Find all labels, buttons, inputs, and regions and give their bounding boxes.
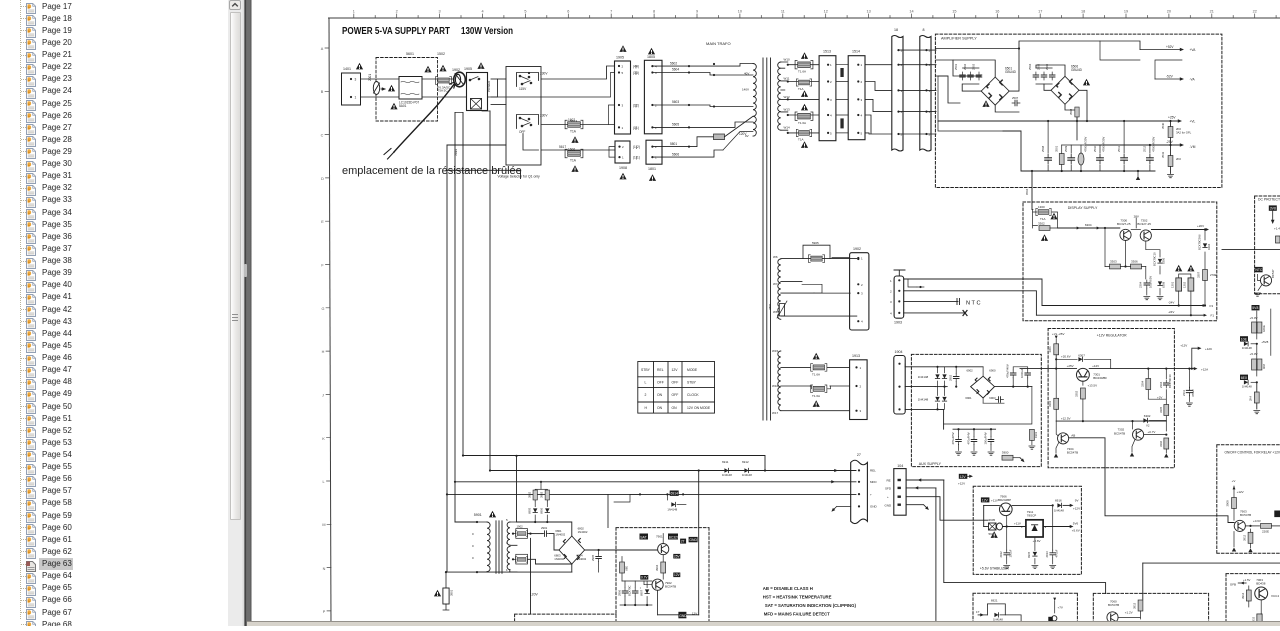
svg-text:12V: 12V [672,368,679,372]
wire N [361,96,467,98]
svg-text:2: 2 [929,63,931,67]
svg-text:3306: 3306 [1131,260,1138,264]
lower mid winding (W5-W8) [778,259,781,319]
svg-text:3: 3 [655,71,657,75]
svg-text:1805: 1805 [647,55,655,59]
svg-text:1: 1 [830,63,832,67]
svg-text:W7: W7 [773,282,778,286]
fuse 1300 loop [1031,203,1033,210]
svg-text:A: A [321,47,324,51]
svg-text:18: 18 [1081,10,1085,14]
svg-text:6304: 6304 [1207,243,1211,250]
svg-text:6907: 6907 [640,589,644,596]
svg-text:1901: 1901 [1034,431,1038,438]
fuse 1502 [435,77,451,85]
svg-text:4: 4 [861,320,863,324]
svg-text:MFD: MFD [870,480,877,484]
fuse 1602 [565,120,583,128]
svg-text:M: M [322,523,325,527]
transistor 7903 BC547B [1234,520,1245,531]
svg-text:12V: 12V [674,573,681,577]
svg-text:2K4: 2K4 [1249,396,1253,401]
svg-text:78SCP: 78SCP [1027,514,1037,518]
svg-text:470uF/4V: 470uF/4V [967,432,971,444]
svg-text:+12V REGULATOR: +12V REGULATOR [1097,333,1127,337]
wire L [361,78,467,80]
svg-text:11: 11 [781,10,785,14]
wire pin4 [904,312,965,314]
svg-text:2902: 2902 [949,374,953,381]
svg-text:Voltage Selector for Q1 only: Voltage Selector for Q1 only [498,175,541,179]
burned resistor blob (arrow target) [454,72,466,87]
primary coil [476,521,478,523]
taps [781,259,857,317]
below IC zener [1034,537,1036,551]
svg-text:+12V: +12V [1092,364,1099,368]
svg-text:3301: 3301 [1048,346,1052,353]
3905 component [984,526,989,528]
wire x447 [446,145,448,572]
svg-text:L: L [645,381,647,385]
svg-text:3307: 3307 [1197,271,1201,278]
arrow + triangle [381,88,385,90]
svg-text:1905: 1905 [464,67,472,71]
svg-text:+12V: +12V [1180,344,1187,348]
svg-text:T1.6A: T1.6A [812,372,820,376]
svg-text:5603: 5603 [672,100,679,104]
svg-text:W16: W16 [772,384,779,388]
svg-text:2: 2 [830,80,832,84]
svg-text:2501: 2501 [954,63,958,70]
svg-text:+2V: +2V [1157,396,1162,400]
wires from switch to selector and connector [491,78,506,80]
svg-text:3V8: 3V8 [1270,207,1276,211]
svg-text:BC547: BC547 [1271,269,1275,278]
svg-text:3304: 3304 [1141,380,1145,387]
svg-text:13: 13 [866,10,870,14]
svg-text:BD242BP: BD242BP [998,498,1011,502]
svg-text:+: + [887,495,889,499]
wire pin1 to display rail [904,279,1042,306]
power switch box 1903 [467,73,488,111]
svg-text:4: 4 [901,110,903,114]
svg-text:0V: 0V [745,134,749,138]
svg-text:1: 1 [929,49,931,53]
svg-text:NTC: NTC [1255,268,1263,272]
svg-text:3305: 3305 [1159,406,1163,413]
svg-text:2: 2 [655,145,657,149]
svg-text:6912: 6912 [742,460,749,464]
svg-text:3A2 for GFL: 3A2 for GFL [1176,131,1192,135]
svg-text:12V: 12V [960,475,967,479]
svg-text:BD230/BF: BD230/BF [1093,376,1107,380]
connector 1903 [894,276,904,318]
svg-text:2001: 2001 [368,74,372,81]
svg-text:1N4002: 1N4002 [578,530,588,534]
left resistor [620,562,625,573]
svg-text:3541: 3541 [1161,151,1165,158]
svg-text:9: 9 [696,10,698,14]
rail to transistors [1058,227,1120,229]
connector 1401 [342,73,361,105]
left resistor [1055,369,1057,398]
AMPLIFIER SUPPLY dashed box [935,34,1222,187]
cap 2507 [1012,100,1020,106]
bridge 6501 [981,77,1009,105]
svg-text:AMPLIFIER SUPPLY: AMPLIFIER SUPPLY [941,37,977,41]
resistor horizontal + gnd [1002,455,1013,460]
svg-text:1903: 1903 [894,321,902,325]
svg-text:+5.0V: +5.0V [1250,316,1258,320]
right cap [1052,505,1054,550]
svg-text:230V: 230V [540,72,548,76]
svg-text:3302: 3302 [1075,390,1079,397]
wavy connector 8 [920,36,931,152]
+5.6V STABILIZER box [973,486,1081,574]
svg-text:P: P [323,610,326,614]
svg-text:5601: 5601 [406,52,414,56]
svg-text:6905: 6905 [528,507,532,514]
svg-text:1?: 1? [976,610,980,614]
svg-text:2502: 2502 [963,63,967,70]
resistors above bridge [535,489,547,501]
svg-text:F3: F3 [1210,304,1214,308]
svg-text:1: 1 [353,10,355,14]
bottom caps row [1045,154,1052,164]
svg-text:4: 4 [655,65,657,69]
svg-text:2504: 2504 [1028,63,1032,70]
svg-text:6504: 6504 [1025,188,1029,195]
svg-text:5: 5 [861,131,863,135]
svg-text:3: 3 [901,89,903,93]
svg-text:C: C [321,134,324,138]
svg-text:3: 3 [861,98,863,102]
svg-text:AUX SUPPLY: AUX SUPPLY [919,462,942,466]
transistor 7906 BD242BP [999,503,1012,516]
wavy connector 18 [892,36,903,152]
svg-text:6307: 6307 [1078,353,1085,357]
svg-text:3913: 3913 [1133,602,1137,609]
wire pin3 NTC [904,300,958,302]
svg-text:6921: 6921 [991,599,998,603]
connector box 1513 [819,56,836,141]
bottom rails [1042,305,1204,307]
svg-text:1N4148: 1N4148 [667,507,677,511]
svg-text:2505: 2505 [1037,63,1041,70]
svg-text:+0.7V: +0.7V [1148,430,1156,434]
svg-text:3501: 3501 [1055,145,1059,152]
NTC resistor on winding [779,304,784,316]
svg-text:1902: 1902 [517,525,524,529]
svg-text:ON: ON [657,393,663,397]
svg-text:2: 2 [622,145,624,149]
svg-text:OFF: OFF [672,393,679,397]
voltage selector switch 1 [517,72,549,92]
svg-text:-52V: -52V [1166,75,1174,79]
svg-text:5: 5 [929,133,931,137]
svg-text:BZX79C10: BZX79C10 [1153,252,1157,266]
svg-text:RE: RE [887,478,891,482]
svg-text:62KE: 62KE [1262,325,1266,332]
bottom middle transistor box [616,528,709,626]
boxed fuses [513,533,516,535]
svg-text:3: 3 [860,409,862,413]
selector to fuse wires [541,124,615,126]
svg-text:2: 2 [890,289,892,293]
svg-text:100uF: 100uF [1009,549,1013,557]
svg-text:BC327-25: BC327-25 [1117,222,1131,226]
right resistors/caps [1148,369,1166,431]
svg-text:OFF: OFF [657,381,664,385]
svg-text:+52V: +52V [1166,45,1174,49]
svg-text:0: 0 [472,544,474,548]
svg-text:2K0: 2K0 [1176,157,1181,161]
svg-text:3912: 3912 [1243,534,1247,541]
svg-text:1N4002: 1N4002 [555,532,565,536]
svg-text:12V: 12V [692,612,697,616]
voltage selector assembly box [506,67,541,166]
svg-text:-VA: -VA [1190,78,1196,82]
svg-text:4: 4 [861,114,863,118]
svg-text:F1: F1 [1211,314,1215,318]
svg-text:DISPLAY SUPPLY: DISPLAY SUPPLY [1068,206,1098,210]
svg-text:5: 5 [830,131,832,135]
bridge out [585,549,658,551]
svg-text:7901: 7901 [656,535,663,539]
svg-text:3: 3 [355,78,357,82]
svg-text:MAIN TRAFO: MAIN TRAFO [706,41,731,46]
right-mid chain [1252,305,1260,310]
svg-text:5901: 5901 [474,513,482,517]
vertical to bottom dash box [530,538,532,614]
svg-text:470uF: 470uF [1054,549,1058,557]
warning triangle above 1805 [648,48,655,55]
svg-text:12V: 12V [982,498,989,502]
svg-text:5: 5 [901,133,903,137]
svg-text:5606: 5606 [672,152,679,156]
wires to bridge [517,522,572,536]
svg-text:2510: 2510 [1093,145,1097,152]
svg-text:15: 15 [952,10,956,14]
bridge 6506 [1051,76,1079,104]
svg-text:270E: 270E [1210,273,1217,277]
svg-text:BC547B: BC547B [1108,603,1119,607]
top tick on connector [894,270,905,276]
svg-text:12V ON MODE: 12V ON MODE [687,406,711,410]
transistor 7902 [652,579,663,590]
svg-text:8: 8 [923,28,925,32]
svg-text:5602: 5602 [670,61,677,65]
svg-text:6902: 6902 [967,369,974,373]
svg-text:140V: 140V [742,88,749,92]
svg-text:2: 2 [861,80,863,84]
ON/OFF CONTROL box [1217,445,1280,554]
right pair with triangles [1175,265,1182,272]
connector 1907 lower [615,141,630,163]
svg-text:6916: 6916 [1055,499,1062,503]
DISPLAY SUPPLY box [1023,202,1217,321]
lower winding section W9 [778,351,781,411]
svg-text:+7V: +7V [1058,606,1063,610]
svg-text:GND: GND [885,504,893,508]
wire rows into connector 1905 [488,79,498,97]
wire turns [455,521,477,523]
svg-text:1301: 1301 [1171,281,1175,288]
svg-text:6308: 6308 [1162,281,1166,288]
svg-text:1N4148: 1N4148 [1242,384,1252,388]
svg-text:6901: 6901 [965,396,972,400]
svg-text:GBU4D: GBU4D [1005,70,1017,74]
transistor 7063 BD438 [1255,587,1268,600]
svg-text:18: 18 [894,28,898,32]
svg-text:2512: 2512 [1143,145,1147,152]
svg-text:2: 2 [396,10,398,14]
svg-text:+VL -25V: +VL -25V [1052,332,1064,336]
connector 1805 [644,60,662,134]
svg-text:(1): (1) [636,156,640,160]
svg-text:W11: W11 [784,76,790,80]
bottom right boxes [1093,593,1208,626]
svg-text:19: 19 [1124,10,1128,14]
svg-text:ON: ON [657,406,663,410]
svg-text:W15: W15 [772,349,779,353]
legend text [763,586,857,616]
svg-text:470uF: 470uF [1191,389,1195,397]
svg-text:CLOCK: CLOCK [687,393,699,397]
svg-text:OFF: OFF [519,130,525,134]
svg-text:1514: 1514 [852,50,860,54]
svg-text:3: 3 [861,292,863,296]
secondary taps [781,62,788,130]
svg-text:NTC: NTC [966,301,982,307]
svg-text:2T: 2T [681,540,685,544]
svg-text:+12A: +12A [1201,368,1208,372]
svg-text:1904: 1904 [895,350,903,354]
wire x455 [454,113,456,523]
svg-text:3: 3 [890,300,892,304]
svg-text:GBU4D: GBU4D [1071,68,1083,72]
svg-text:BD438: BD438 [1256,582,1266,586]
svg-text:+1.5V: +1.5V [1243,578,1251,582]
stby core [496,521,502,574]
svg-text:H: H [322,350,325,354]
rail out right [1151,229,1207,231]
+12V REGULATOR box [1048,329,1174,468]
svg-text:3902: 3902 [528,491,532,498]
svg-text:6306: 6306 [1162,257,1166,264]
aux bridge [971,376,995,398]
svg-text:25V: 25V [674,555,681,559]
svg-text:W14: W14 [784,126,791,130]
svg-text:1913: 1913 [852,354,860,358]
svg-text:W12: W12 [784,95,791,99]
svg-text:115V: 115V [519,87,527,91]
svg-text:10E: 10E [1241,337,1248,341]
svg-text:5A01: 5A01 [399,104,407,108]
svg-text:5617: 5617 [559,145,566,149]
3540 resistor [1168,127,1173,138]
svg-text:2: 2 [622,65,624,69]
svg-text:+: + [870,492,872,496]
svg-text:1401: 1401 [343,67,351,71]
svg-text:ON: ON [672,406,678,410]
svg-text:6915: 6915 [1027,551,1031,558]
wire x463 [462,113,464,456]
svg-text:104: 104 [897,464,903,468]
connector 1902b [850,253,869,330]
svg-text:5801: 5801 [670,142,677,146]
svg-text:GFB: GFB [1230,583,1236,587]
svg-text:BC547B: BC547B [1067,451,1078,455]
svg-text:1N4002: 1N4002 [554,557,564,561]
svg-text:4: 4 [481,10,483,14]
svg-text:4700uF/35V: 4700uF/35V [1084,137,1088,152]
svg-text:1908: 1908 [619,166,627,170]
svg-text:1N4148: 1N4148 [722,473,732,477]
secondary coil top [778,62,781,130]
transistor 7304 [1058,433,1069,444]
svg-text:1: 1 [890,279,892,283]
svg-text:4: 4 [890,311,892,315]
stub diode under + wire [666,493,668,495]
svg-text:-24V: -24V [1168,301,1174,305]
svg-text:5605: 5605 [672,123,679,127]
svg-text:2506: 2506 [1045,63,1049,70]
svg-text:2906: 2906 [618,589,622,596]
svg-text:3914: 3914 [1241,592,1245,599]
svg-text:1N4148: 1N4148 [918,398,929,402]
svg-text:2905: 2905 [591,554,595,561]
svg-text:2: 2 [645,393,647,397]
wires linking switch rows up to connector rows [491,73,615,98]
svg-text:BC327: BC327 [669,535,679,539]
stub with dot [908,279,917,287]
svg-text:6903: 6903 [989,396,996,400]
svg-text:3306: 3306 [1159,440,1163,447]
svg-text:3905: 3905 [989,518,996,522]
long wire 2 [1143,562,1280,564]
svg-text:(2): (2) [635,104,639,108]
svg-text:3303: 3303 [1048,400,1052,407]
wire from 7304 to ON/OFF [1105,468,1234,523]
svg-text:2511: 2511 [1117,146,1121,152]
svg-text:V2: V2 [1146,424,1150,428]
transistor 7302 [1133,429,1144,440]
line filter box 5601 [399,77,422,100]
svg-text:REL: REL [870,469,876,473]
svg-text:6K8: 6K8 [1262,364,1266,369]
long horizontals from left [698,471,700,615]
svg-text:3909: 3909 [1226,500,1230,507]
svg-text:1905: 1905 [616,56,624,60]
svg-text:3508: 3508 [1069,108,1073,115]
wires to wavy connectors [865,65,892,134]
svg-text:2507: 2507 [1012,96,1019,100]
svg-text:2304: 2304 [1139,281,1143,288]
svg-text:6E0: 6E0 [1241,376,1247,380]
right resistor [1030,429,1035,440]
caps group 1 [960,72,966,80]
svg-text:W13: W13 [784,107,791,111]
svg-text:68E: 68E [625,566,629,571]
svg-text:2913: 2913 [1045,551,1049,558]
svg-text:-VM: -VM [1190,145,1196,149]
svg-text:T1A: T1A [570,159,577,163]
wire pin2 [904,291,1037,315]
svg-text:+12.5V: +12.5V [1061,417,1071,421]
connector 1913 [850,360,868,420]
svg-text:17: 17 [1038,10,1042,14]
